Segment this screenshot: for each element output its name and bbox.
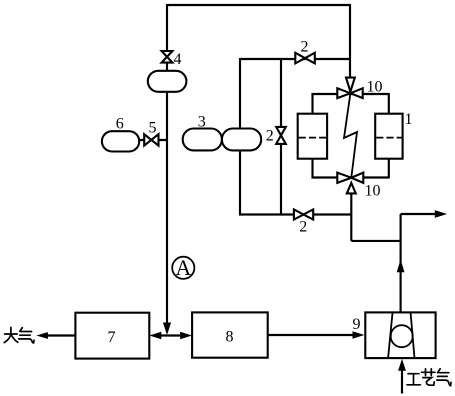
wire left main vertical lower: [166, 91, 168, 332]
wire loop bottom y177.5: [313, 176, 389, 178]
wire vertical x240: [239, 58, 241, 216]
svg-text:3: 3: [198, 114, 206, 131]
arrow into box8: [180, 332, 192, 340]
svg-text:1: 1: [405, 111, 413, 128]
box 8: [192, 312, 268, 357]
wire 8 to 9: [268, 334, 353, 336]
wire regen header y59: [240, 58, 350, 60]
valve 2 top regen: [295, 53, 305, 64]
svg-text:2: 2: [299, 219, 307, 236]
valve 2 middle vertical: [276, 127, 286, 135]
valve 10 bottom three-way: [337, 173, 351, 183]
blower left slant: [388, 313, 392, 358]
vessel 6 capsule: [102, 131, 139, 151]
adsorber vessel left: [298, 114, 327, 159]
wire purge line y140: [138, 139, 167, 141]
wire vertical x281: [280, 58, 282, 216]
arrow process gas up: [398, 359, 406, 371]
wire left main vertical upper: [166, 4, 168, 51]
svg-text:2: 2: [266, 128, 274, 145]
valve 2 bottom regen: [294, 210, 304, 220]
instrument A circle: [172, 257, 194, 279]
svg-text:5: 5: [149, 120, 157, 137]
wire right vessel bottom connector: [388, 158, 390, 179]
blower circle: [391, 325, 413, 347]
wire top header: [167, 4, 350, 6]
svg-text:9: 9: [353, 316, 361, 333]
valve 5: [144, 134, 151, 145]
arrow product riser up: [397, 260, 405, 273]
svg-text:4: 4: [174, 51, 182, 68]
text gong (process): [408, 373, 419, 375]
wire step horizontal y241: [351, 240, 400, 242]
svg-text:10: 10: [365, 183, 381, 200]
zigzag changeover link: [344, 93, 357, 178]
svg-text:7: 7: [108, 329, 116, 346]
blower right slant: [411, 313, 415, 358]
svg-text:10: 10: [367, 79, 383, 96]
text yi (process): [422, 371, 436, 373]
wire box7 to atmosphere: [47, 334, 75, 336]
arrow product out right: [435, 210, 447, 218]
wire valve10 top inlet stub: [349, 76, 351, 79]
wire left vessel top connector: [311, 93, 313, 114]
svg-text:A: A: [175, 255, 191, 280]
wire bottom regen y214.5: [239, 213, 352, 215]
wire 7-8 link: [160, 334, 182, 336]
wire valve10 bottom outlet down: [350, 193, 352, 241]
box 7: [75, 313, 149, 359]
vessel 3 right capsule: [222, 129, 261, 151]
arrow into box7: [149, 332, 161, 340]
box 9 blower housing: [365, 312, 435, 358]
wire process gas inlet: [401, 369, 403, 394]
wire loop top y94: [313, 93, 389, 95]
text qi (process): [438, 369, 441, 373]
svg-text:2: 2: [301, 39, 309, 56]
wire valve4 to capsule stub: [166, 63, 168, 73]
valve 10 top three-way: [337, 88, 350, 98]
wire product riser: [400, 214, 402, 312]
text qi (atmosphere): [20, 328, 23, 332]
arrow into box9: [353, 331, 365, 339]
vessel 4 buffer capsule: [148, 71, 187, 92]
vessel 3 left capsule: [183, 129, 222, 151]
wire product out: [401, 213, 436, 215]
arrow to atmosphere: [36, 332, 48, 339]
svg-text:8: 8: [226, 329, 234, 346]
arrow down into 7-8 line: [163, 323, 171, 336]
wire left vessel bottom connector: [311, 158, 313, 179]
wire right header vertical: [349, 4, 351, 79]
adsorber vessel 1 right: [375, 114, 402, 159]
valve V4: [162, 51, 173, 57]
wire right vessel top connector: [388, 93, 390, 114]
adsorber left dashed level: [299, 137, 326, 139]
adsorber right dashed level: [376, 137, 401, 139]
svg-text:6: 6: [116, 116, 124, 133]
text da (atmosphere): [5, 333, 18, 335]
